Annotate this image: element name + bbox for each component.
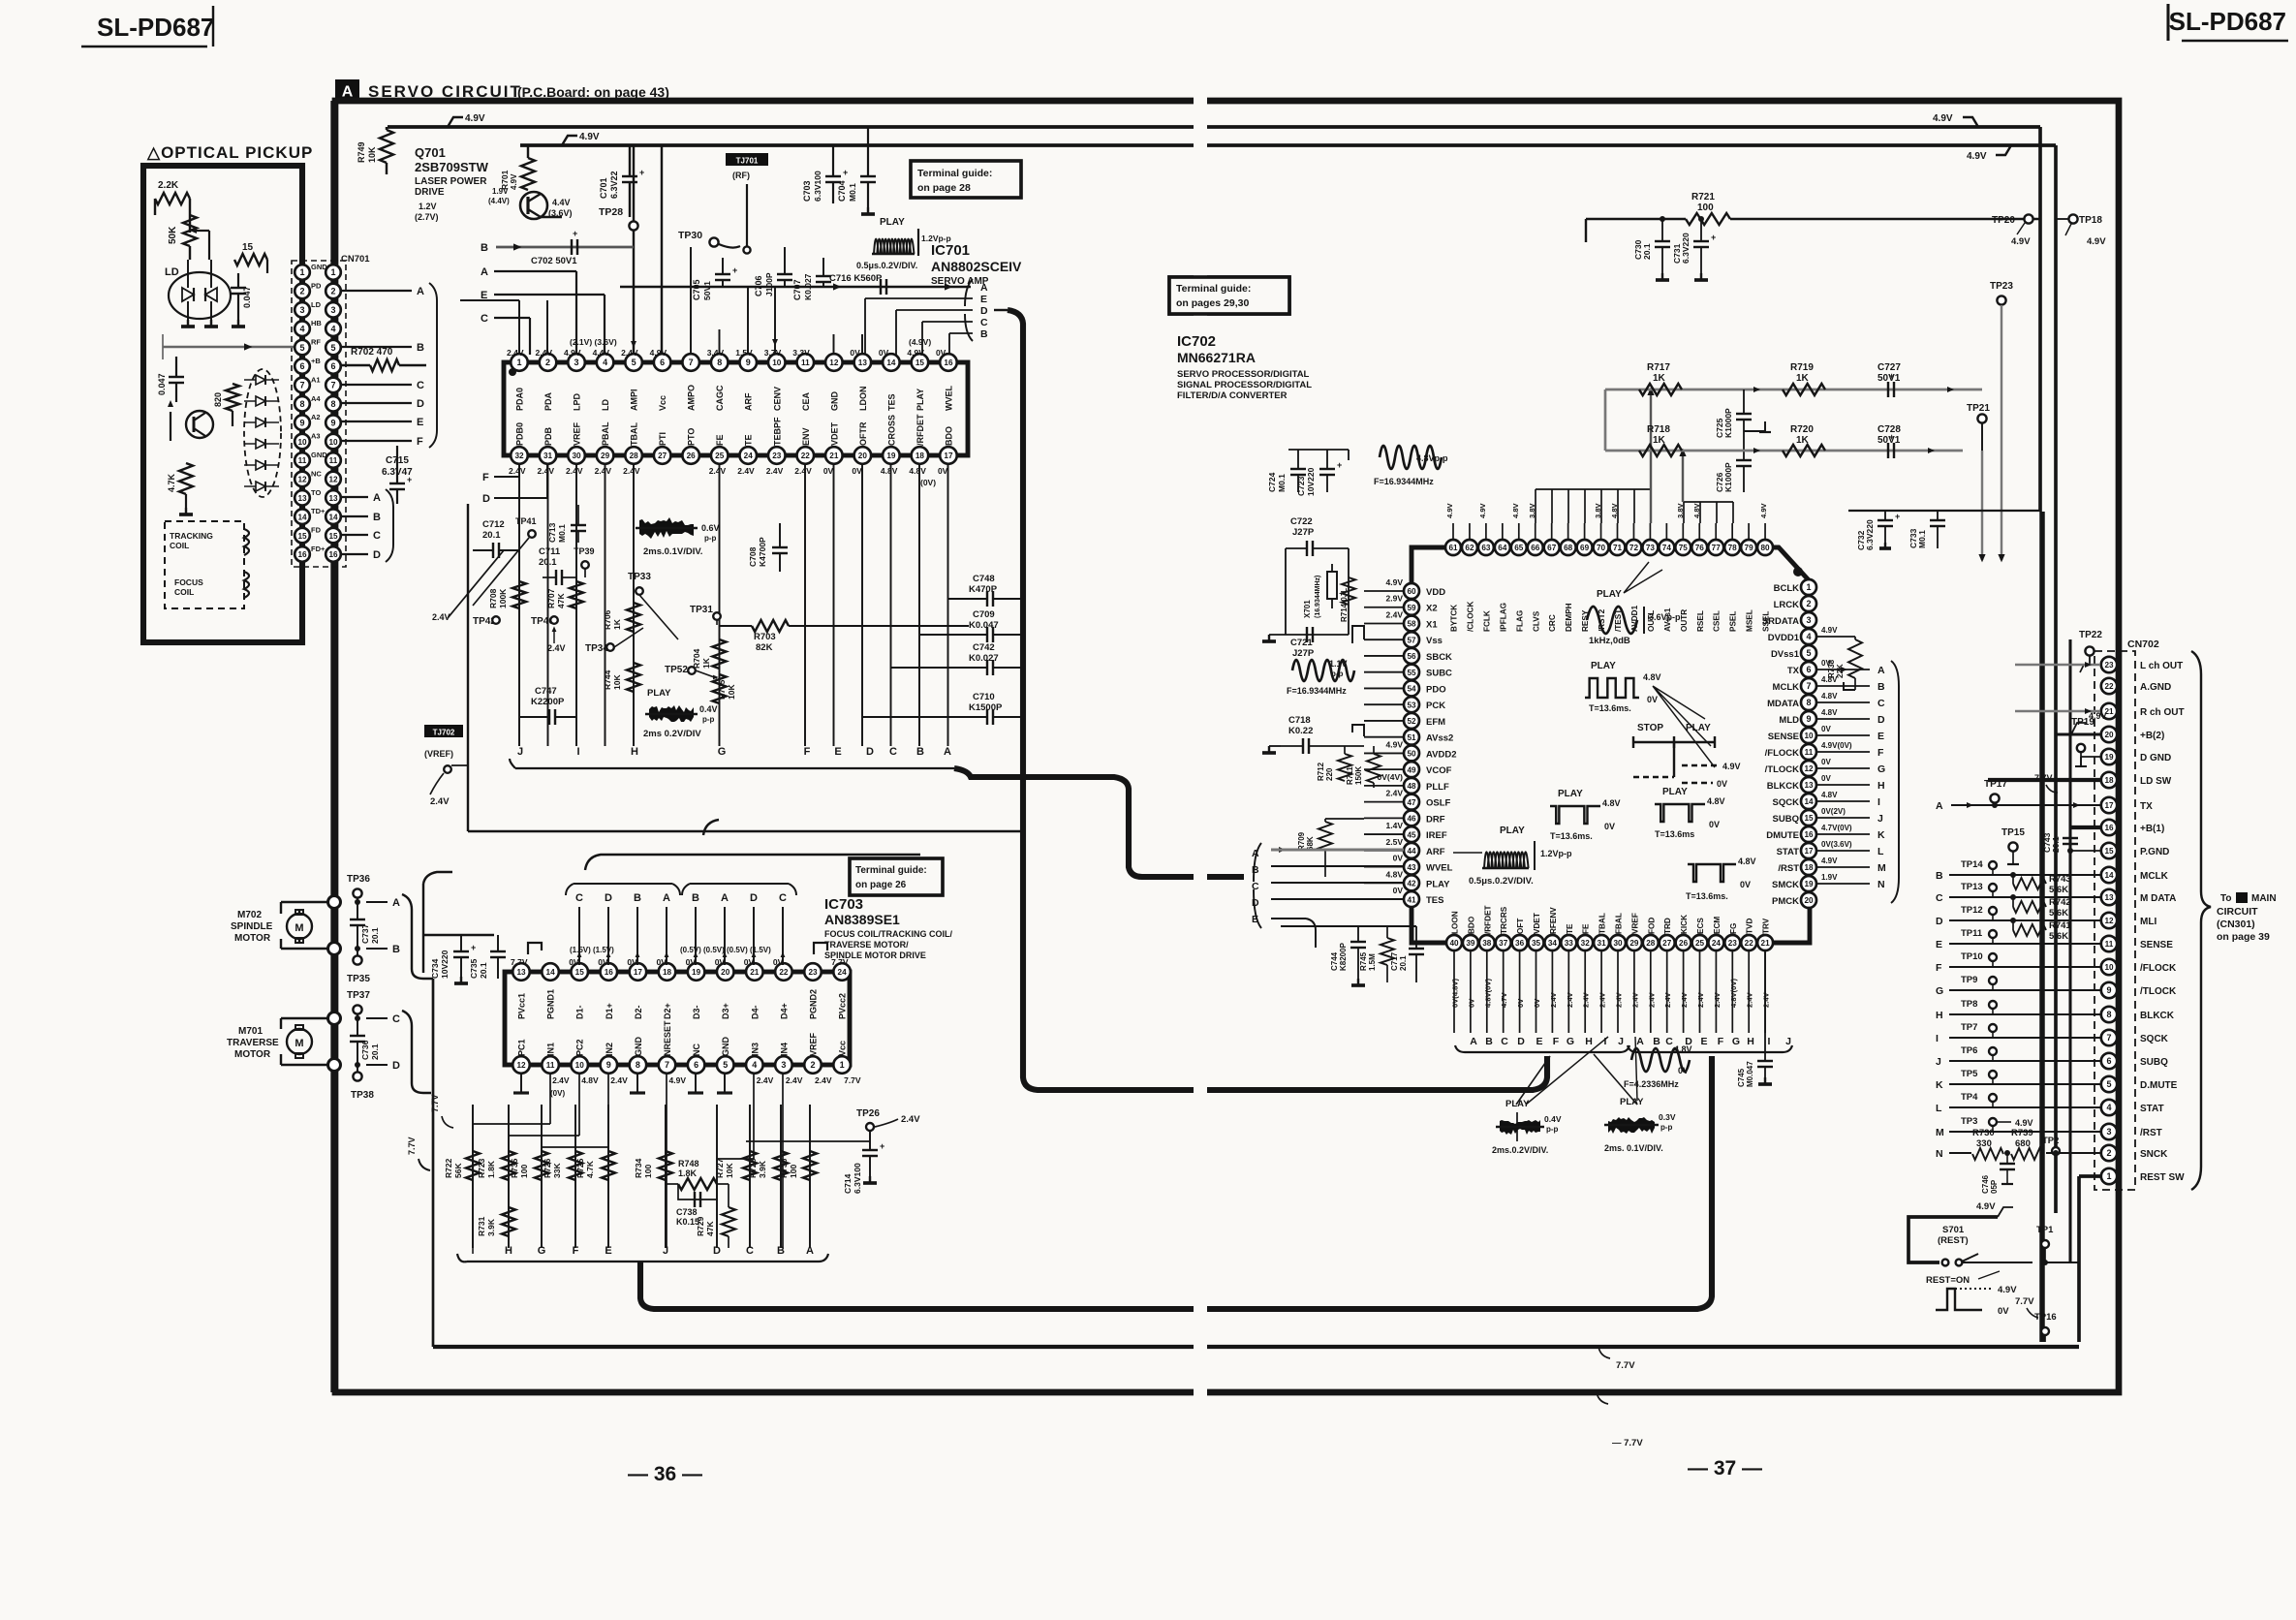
svg-text:Terminal guide:: Terminal guide:: [1176, 283, 1251, 295]
test point TP37: [347, 990, 370, 1018]
pin 25 of IC702: [1692, 935, 1708, 950]
wire E line: [481, 290, 605, 355]
svg-text:+: +: [407, 475, 412, 484]
test point TP28: [599, 145, 638, 355]
ground hook at Vss: [1352, 626, 1364, 643]
svg-text:CIRCUIT: CIRCUIT: [2217, 906, 2258, 918]
pin 13 of IC702: [1801, 777, 1816, 793]
svg-text:29: 29: [601, 452, 610, 460]
svg-text:C708: C708: [748, 546, 758, 567]
resistor R748 1.8K and capacitor C738 K0.15: [667, 1159, 729, 1227]
svg-text:BCLK: BCLK: [1774, 583, 1800, 594]
svg-text:TP18: TP18: [2079, 215, 2102, 226]
pin 71 of IC702: [1610, 540, 1626, 555]
svg-text:2.4V: 2.4V: [509, 466, 526, 476]
svg-text:100: 100: [643, 1165, 653, 1178]
svg-text:R722: R722: [444, 1158, 453, 1178]
svg-text:19: 19: [692, 968, 701, 977]
svg-text:30: 30: [1613, 939, 1623, 948]
motor M702 spindle: [231, 896, 341, 955]
svg-text:C: C: [1936, 892, 1943, 904]
svg-text:AN8389SE1: AN8389SE1: [824, 912, 900, 927]
svg-text:X2: X2: [1426, 604, 1438, 614]
wire IC702 top pin feeds: [1445, 388, 1768, 540]
scope waveform tracking error: [636, 517, 720, 557]
svg-text:D: D: [980, 305, 988, 317]
svg-text:3: 3: [299, 305, 304, 315]
svg-text:TBAL: TBAL: [1598, 913, 1607, 934]
svg-text:+: +: [843, 168, 848, 177]
svg-text:EFM: EFM: [1426, 717, 1445, 728]
svg-text:PLAY: PLAY: [915, 389, 925, 411]
svg-text:SERVO PROCESSOR/DIGITAL: SERVO PROCESSOR/DIGITAL: [1177, 369, 1310, 380]
svg-text:63: 63: [1481, 544, 1491, 552]
svg-text:15: 15: [1804, 814, 1814, 823]
resistor R743 5.6K: [2010, 872, 2071, 895]
svg-text:TP3: TP3: [1961, 1116, 1977, 1127]
svg-text:on page 28: on page 28: [917, 182, 971, 194]
svg-text:2.4V: 2.4V: [757, 1075, 774, 1085]
capacitor C723 10V220: [1288, 450, 1349, 496]
wire left boundary of IC701 section: [468, 504, 1023, 831]
page label SL-PD687 (top left): [81, 6, 214, 47]
svg-text:I: I: [1877, 796, 1880, 808]
svg-text:4.8V: 4.8V: [1610, 502, 1619, 518]
svg-text:OFTR: OFTR: [858, 421, 868, 446]
terminal guide box (page 26): [850, 858, 943, 895]
svg-text:0.047: 0.047: [242, 286, 252, 308]
wire TX line to pin17: [1936, 800, 2100, 812]
pin 39 of IC702: [1463, 935, 1478, 950]
test point TP22: [2079, 630, 2102, 672]
svg-text:59: 59: [1407, 604, 1416, 612]
svg-text:N: N: [1936, 1148, 1943, 1160]
wire outer frame of servo circuit board: [335, 101, 2119, 1392]
svg-text:5: 5: [1806, 648, 1811, 658]
pin 16 of IC701: [940, 354, 957, 371]
svg-text:I: I: [1936, 1033, 1939, 1044]
svg-text:p-p: p-p: [1331, 670, 1344, 678]
svg-text:TE: TE: [1566, 923, 1574, 934]
svg-text:CLVS: CLVS: [1532, 610, 1540, 632]
svg-text:GND: GND: [311, 451, 327, 459]
svg-text:SPINDLE: SPINDLE: [231, 921, 273, 932]
ground hook above PGND2: [814, 943, 827, 954]
svg-text:LD: LD: [311, 300, 322, 309]
svg-text:0V: 0V: [850, 348, 860, 358]
pin 55 of IC702: [1404, 665, 1419, 680]
svg-text:0V: 0V: [938, 466, 948, 476]
svg-text:25: 25: [1695, 939, 1705, 948]
svg-text:GND: GND: [634, 1037, 643, 1057]
capacitor C705 50V1: [692, 258, 737, 300]
pin 9 of IC703: [601, 1056, 618, 1074]
svg-text:3.9K: 3.9K: [758, 1160, 767, 1178]
pin 28 of IC702: [1643, 935, 1659, 950]
svg-text:TRCRS: TRCRS: [1500, 906, 1508, 934]
svg-text:D1+: D1+: [605, 1003, 614, 1019]
wire C716 K560P line: [620, 273, 971, 295]
svg-text:15: 15: [2104, 847, 2114, 856]
svg-text:TP30: TP30: [678, 230, 702, 241]
brace to main circuit: [2191, 651, 2211, 1190]
pin 18 of IC701: [912, 447, 929, 464]
node A B motor taps: [366, 894, 433, 979]
svg-text:2SB709STW: 2SB709STW: [415, 160, 489, 174]
capacitor C701 6.3V22: [599, 145, 644, 217]
svg-text:12: 12: [829, 358, 839, 367]
svg-text:10: 10: [2104, 963, 2114, 972]
svg-text:FOCUS: FOCUS: [174, 577, 203, 587]
pin 22 of IC701: [797, 447, 815, 464]
svg-text:C723: C723: [1296, 476, 1306, 496]
svg-text:8: 8: [330, 399, 335, 409]
pin 30 of IC701: [568, 447, 585, 464]
svg-text:+: +: [639, 168, 644, 177]
svg-text:TP15: TP15: [2001, 827, 2025, 838]
svg-text:L ch OUT: L ch OUT: [2140, 661, 2183, 671]
pin 46 of IC702: [1404, 810, 1419, 826]
pin 23 of IC703: [804, 963, 822, 981]
svg-text:COIL: COIL: [174, 587, 194, 597]
svg-text:TP38: TP38: [351, 1090, 374, 1101]
svg-text:SL-PD687: SL-PD687: [97, 13, 214, 42]
svg-text:NC: NC: [692, 1044, 701, 1056]
resistor R742 5.6K: [2010, 894, 2071, 919]
page gap between page 36 and 37: [1194, 93, 1207, 1411]
pin 24 of IC702: [1708, 935, 1723, 950]
svg-text:100K: 100K: [498, 588, 508, 608]
pin 74 of IC702: [1659, 540, 1674, 555]
pin 5 of IC702: [1801, 645, 1816, 661]
pin 11 of IC702: [1801, 744, 1816, 760]
scope waveform RF eye pattern (PLAY): [856, 217, 951, 270]
svg-text:2ms.0.1V/DIV.: 2ms.0.1V/DIV.: [643, 546, 702, 557]
svg-text:+B: +B: [311, 357, 321, 365]
wire hatched DAC R line with R718 R720 C728: [1605, 389, 1963, 453]
svg-text:R706: R706: [603, 609, 612, 630]
pin 24 of IC703: [833, 963, 851, 981]
svg-text:PDB0: PDB0: [515, 422, 525, 446]
svg-text:2.4V: 2.4V: [536, 348, 553, 358]
svg-text:M702: M702: [237, 910, 262, 920]
svg-text:Vss: Vss: [1426, 636, 1443, 646]
note To MAIN CIRCUIT (CN301): [2217, 892, 2277, 943]
svg-text:9: 9: [330, 418, 335, 427]
svg-text:12: 12: [1804, 764, 1814, 773]
svg-text:50: 50: [1407, 750, 1416, 759]
capacitor 0.047: [231, 273, 252, 327]
svg-text:D2+: D2+: [663, 1003, 672, 1019]
pin 3 of IC702: [1801, 612, 1816, 628]
svg-text:E: E: [417, 417, 423, 428]
svg-text:4.9V: 4.9V: [1759, 502, 1768, 518]
svg-text:5.6K: 5.6K: [2049, 931, 2068, 942]
svg-text:15: 15: [575, 968, 585, 977]
svg-text:C: C: [373, 530, 381, 542]
svg-text:18: 18: [663, 968, 672, 977]
svg-text:DVss1: DVss1: [1771, 649, 1800, 660]
svg-text:0V(2V): 0V(2V): [1821, 807, 1846, 816]
svg-text:1.9V: 1.9V: [1821, 873, 1838, 882]
svg-text:PSEL: PSEL: [1729, 611, 1738, 632]
svg-text:PDB: PDB: [543, 426, 553, 446]
svg-text:4.9V: 4.9V: [2011, 236, 2031, 247]
svg-text:2: 2: [545, 358, 550, 367]
svg-text:C713: C713: [547, 522, 557, 543]
svg-text:F: F: [1553, 1036, 1560, 1047]
svg-text:9: 9: [299, 418, 304, 427]
svg-text:D: D: [866, 746, 874, 758]
svg-text:K2200P: K2200P: [531, 697, 565, 707]
svg-text:TP1: TP1: [2036, 1225, 2054, 1235]
pin 6 of IC703: [688, 1056, 705, 1074]
pin 35 of IC702: [1529, 935, 1544, 950]
svg-text:C736: C736: [360, 1040, 370, 1060]
svg-text:2.4V: 2.4V: [1615, 991, 1624, 1008]
svg-text:TP4: TP4: [1961, 1092, 1978, 1103]
svg-text:M: M: [1936, 1127, 1944, 1138]
svg-text:3.8V: 3.8V: [1676, 502, 1685, 518]
capacitor C748 K470P: [948, 574, 1024, 607]
svg-text:VREF: VREF: [809, 1032, 819, 1056]
pin 18 of IC702: [1801, 859, 1816, 875]
pin 65 of IC702: [1511, 540, 1527, 555]
svg-text:WVEL: WVEL: [1426, 863, 1453, 874]
svg-text:S701: S701: [1942, 1225, 1965, 1235]
svg-text:0.4V: 0.4V: [1544, 1114, 1562, 1124]
svg-text:D: D: [482, 493, 490, 505]
svg-text:C: C: [1501, 1036, 1508, 1047]
svg-text:10: 10: [575, 1061, 585, 1070]
svg-text:(CN301): (CN301): [2217, 919, 2255, 930]
svg-text:22: 22: [779, 968, 789, 977]
svg-text:C702 50V1: C702 50V1: [531, 256, 577, 266]
svg-text:R736: R736: [779, 1158, 789, 1178]
processor IC702 MN66271RA body: [1412, 547, 1810, 943]
svg-text:/RFDET: /RFDET: [915, 414, 925, 446]
svg-text:K1500P: K1500P: [969, 702, 1003, 713]
svg-text:1.4V: 1.4V: [1386, 821, 1404, 830]
capacitor C713 M0.1: [547, 505, 586, 543]
test point TP33: [628, 572, 678, 639]
svg-text:E: E: [1936, 939, 1942, 950]
svg-text:R731: R731: [477, 1216, 486, 1236]
svg-text:AVss2: AVss2: [1426, 733, 1453, 744]
svg-text:4.9V: 4.9V: [1967, 151, 1987, 162]
svg-text:R703: R703: [754, 632, 776, 642]
pin 29 of IC701: [597, 447, 614, 464]
svg-text:L: L: [1877, 846, 1884, 857]
switch S701 (REST): [1908, 1176, 2079, 1286]
svg-text:SBCK: SBCK: [1426, 652, 1452, 663]
pin 50 of IC702: [1404, 745, 1419, 761]
svg-text:11: 11: [546, 1061, 555, 1070]
svg-text:75: 75: [1679, 544, 1689, 552]
svg-text:I: I: [1768, 1036, 1771, 1047]
svg-text:41: 41: [1407, 895, 1416, 904]
svg-text:56K: 56K: [453, 1163, 463, 1178]
svg-text:R702 470: R702 470: [351, 347, 393, 358]
svg-text:6: 6: [2106, 1056, 2111, 1066]
svg-text:2.4V: 2.4V: [1663, 991, 1672, 1008]
svg-text:OFT: OFT: [1516, 919, 1525, 934]
svg-text:SUBC: SUBC: [1426, 669, 1452, 679]
scope waveform /TLOCK pulse (PLAY): [1655, 787, 1725, 839]
svg-text:11: 11: [801, 358, 810, 367]
capacitor C703 6.3V100: [802, 145, 848, 203]
svg-text:0V: 0V: [1821, 774, 1831, 783]
svg-text:A: A: [1936, 800, 1943, 812]
svg-text:24: 24: [1712, 939, 1722, 948]
svg-text:12: 12: [2104, 917, 2114, 925]
capacitor C726 K1000P: [1715, 431, 1752, 492]
svg-text:J: J: [1936, 1056, 1941, 1068]
svg-text:TD+: TD+: [311, 507, 326, 515]
connector CN701: [292, 254, 370, 567]
capacitor C735 20.1: [469, 935, 506, 979]
svg-text:TES: TES: [886, 393, 896, 411]
svg-text:TX: TX: [2140, 801, 2153, 812]
svg-text:PDA: PDA: [543, 391, 553, 411]
svg-text:R721: R721: [1691, 192, 1715, 202]
svg-text:C724: C724: [1267, 472, 1277, 492]
pin 4 of IC702: [1801, 629, 1816, 644]
pin 22 of IC702: [1741, 935, 1756, 950]
svg-text:26: 26: [1679, 939, 1689, 948]
svg-text:7.7V: 7.7V: [1616, 1360, 1635, 1371]
svg-text:4.8Vp-p: 4.8Vp-p: [1416, 453, 1448, 463]
svg-text:SENSE: SENSE: [1768, 732, 1799, 742]
capacitor C742 K0.027: [891, 642, 1024, 675]
scope waveform FE (PLAY): [1604, 1097, 1676, 1153]
svg-text:4.7K: 4.7K: [167, 473, 176, 492]
svg-text:7: 7: [665, 1060, 669, 1070]
svg-text:0V: 0V: [936, 348, 946, 358]
svg-text:A: A: [392, 897, 400, 909]
svg-text:4.8V: 4.8V: [581, 1075, 599, 1085]
svg-text:REST SW: REST SW: [2140, 1172, 2185, 1183]
svg-text:3: 3: [781, 1060, 786, 1070]
pin 3 of IC703: [775, 1056, 792, 1074]
wire 4.9V rail lower: [520, 132, 2056, 1213]
svg-text:4.8V: 4.8V: [909, 466, 926, 476]
svg-text:CENV: CENV: [772, 387, 782, 411]
page number 37: [1688, 1457, 1762, 1480]
svg-text:7.7V: 7.7V: [2015, 1296, 2034, 1307]
scope waveform PMCK clock: [1624, 1044, 1692, 1089]
pin 33 of IC702: [1561, 935, 1576, 950]
svg-text:K4700P: K4700P: [758, 537, 767, 567]
svg-text:2.4V: 2.4V: [595, 466, 612, 476]
test point TP30: [678, 230, 740, 248]
svg-text:R742: R742: [2049, 897, 2071, 908]
svg-text:B: B: [634, 892, 641, 904]
svg-text:150K: 150K: [1354, 766, 1363, 785]
svg-text:LPD: LPD: [573, 392, 582, 411]
capacitor C737 20.1: [350, 899, 380, 951]
svg-text:A: A: [1877, 665, 1885, 676]
svg-text:TP2: TP2: [2042, 1136, 2059, 1146]
svg-text:14: 14: [1804, 797, 1814, 806]
svg-text:SMCK: SMCK: [1772, 880, 1799, 890]
svg-text:B: B: [1877, 681, 1885, 693]
svg-text:0V: 0V: [715, 957, 726, 967]
svg-text:10K: 10K: [612, 674, 622, 690]
svg-text:6: 6: [330, 361, 335, 371]
svg-text:D: D: [1685, 1036, 1692, 1047]
resistor 4.7K: [167, 463, 193, 514]
wire thick bus from IC701 terminals to IC702 (A-E): [954, 768, 1244, 877]
pin 15 of IC703: [571, 963, 588, 981]
svg-text:43: 43: [1407, 863, 1416, 872]
svg-text:J: J: [663, 1245, 668, 1257]
svg-text:K1000P: K1000P: [1723, 462, 1733, 492]
svg-text:FE: FE: [715, 434, 725, 446]
svg-text:C: C: [779, 892, 787, 904]
svg-text:+: +: [471, 943, 476, 952]
svg-text:/FLOCK: /FLOCK: [2140, 963, 2177, 974]
svg-text:67: 67: [1547, 544, 1557, 552]
svg-text:(RF): (RF): [732, 171, 750, 180]
svg-text:G: G: [538, 1245, 546, 1257]
optical pickup title: [146, 143, 313, 162]
svg-text:3.7V: 3.7V: [764, 348, 782, 358]
svg-text:(0V): (0V): [920, 478, 936, 487]
svg-text:MN66271RA: MN66271RA: [1177, 350, 1256, 365]
svg-text:7.7V: 7.7V: [2034, 773, 2053, 783]
svg-text:TP52: TP52: [665, 665, 688, 675]
svg-text:17: 17: [634, 968, 643, 977]
svg-text:21: 21: [1761, 939, 1771, 948]
svg-text:0V: 0V: [1821, 725, 1831, 733]
svg-text:20.1: 20.1: [370, 927, 380, 944]
svg-text:TRAVERSE MOTOR/: TRAVERSE MOTOR/: [824, 940, 909, 950]
svg-text:TP21: TP21: [1967, 403, 1990, 414]
svg-text:72: 72: [1629, 544, 1639, 552]
svg-text:IPFLAG: IPFLAG: [1499, 603, 1507, 632]
pin 30 of IC702: [1610, 935, 1626, 950]
svg-text:19: 19: [2104, 753, 2114, 762]
pin 23 of IC701: [768, 447, 786, 464]
svg-text:0.3V: 0.3V: [1659, 1112, 1676, 1122]
svg-text:2: 2: [299, 287, 304, 296]
capacitor C747 K2200P: [519, 686, 576, 725]
svg-text:680: 680: [2015, 1138, 2031, 1149]
svg-text:53: 53: [1407, 701, 1416, 709]
svg-text:E: E: [1877, 731, 1884, 742]
svg-text:T=13.6ms: T=13.6ms: [1655, 829, 1694, 839]
capacitor C730 20.1: [1633, 216, 1670, 280]
svg-text:ARF: ARF: [1426, 847, 1445, 857]
svg-text:CN701: CN701: [341, 254, 370, 265]
svg-text:2.4V: 2.4V: [1386, 789, 1404, 798]
resistor R725 4.7K: [575, 1151, 615, 1180]
wire 527 link line: [1848, 510, 2040, 512]
pin 72 of IC702: [1626, 540, 1641, 555]
wire LD SW line: [1988, 780, 2100, 785]
svg-text:4.9V: 4.9V: [669, 1075, 687, 1085]
test point TP31: [690, 605, 721, 625]
svg-text:TP28: TP28: [599, 206, 623, 218]
svg-text:SENSE: SENSE: [2140, 940, 2173, 950]
capacitor C704 M0.1: [837, 127, 876, 214]
pin 10 of IC702: [1801, 728, 1816, 743]
svg-text:38: 38: [1482, 939, 1492, 948]
svg-text:FBAL: FBAL: [1615, 913, 1624, 934]
svg-text:Terminal guide:: Terminal guide:: [917, 168, 992, 179]
svg-text:14: 14: [886, 358, 896, 367]
